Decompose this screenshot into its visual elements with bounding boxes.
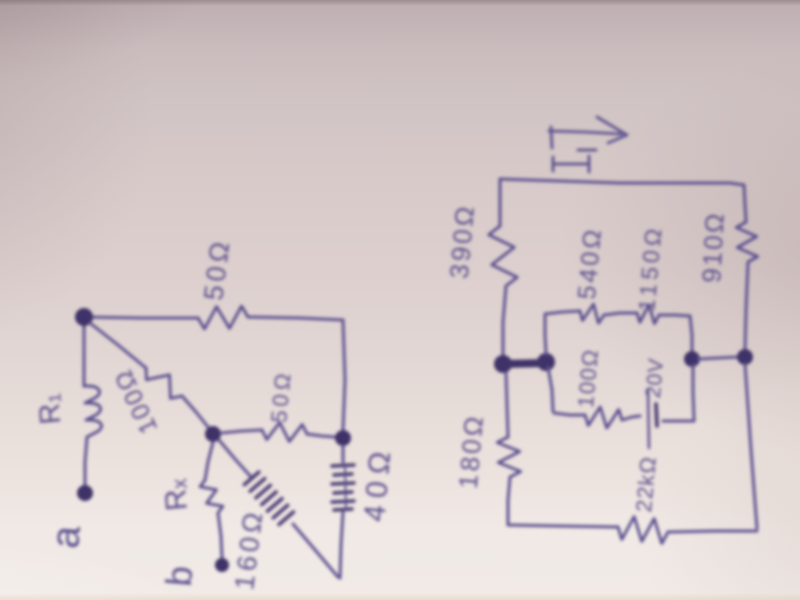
- wire left-top side (node A to corner): [84, 317, 198, 318]
- resistor Rx: [200, 480, 223, 513]
- resistor 100ohm galvanometer arm: [146, 368, 182, 398]
- wire top side to corner: [248, 317, 343, 320]
- terminal dot a: [77, 485, 93, 501]
- arrow current I1 shaft: [549, 131, 621, 134]
- wire R1 to terminal a: [85, 437, 87, 486]
- resistor 22kohm: [618, 517, 668, 544]
- svg-text:540Ω: 540Ω: [573, 225, 607, 300]
- svg-text:910Ω: 910Ω: [696, 211, 730, 284]
- svg-text:Rₓ: Rₓ: [158, 478, 194, 512]
- wire lower box left side: [548, 367, 553, 411]
- svg-text:100Ω: 100Ω: [573, 347, 603, 409]
- battery 20V short plate: [656, 404, 657, 426]
- wire lower box right side: [693, 365, 694, 421]
- wire lower box bottom-left: [554, 413, 585, 415]
- wire corner down to node C: [343, 320, 345, 430]
- label I1 drawn I-beam: [553, 150, 596, 172]
- junction bar JL-JM: [503, 363, 546, 364]
- arrow head: [597, 117, 627, 143]
- wire 390ohm to node JL: [503, 286, 506, 357]
- svg-text:180Ω: 180Ω: [453, 412, 489, 490]
- wire top side right circuit: [500, 179, 744, 185]
- wire 40ohm to bottom corner: [340, 512, 343, 578]
- wire upper box right side: [690, 316, 692, 352]
- wire node A down to R1: [83, 324, 86, 386]
- wire node C down to 40ohm: [342, 446, 345, 462]
- wire KR to JR: [698, 357, 738, 359]
- svg-text:b: b: [158, 564, 201, 588]
- wire diagonal node B down-right: [219, 440, 252, 478]
- wire JL down to 180ohm: [506, 373, 508, 437]
- svg-text:50Ω: 50Ω: [198, 236, 235, 302]
- resistor 180ohm: [497, 437, 520, 477]
- wire between 540 and 1150: [604, 313, 637, 315]
- svg-text:100Ω: 100Ω: [109, 364, 164, 438]
- wire 910ohm to node JR: [745, 262, 748, 350]
- resistor 160ohm striped on diagonal: [244, 472, 293, 524]
- resistor 910ohm: [736, 222, 757, 262]
- wire bottom side right: [668, 531, 757, 532]
- resistor 390ohm: [489, 226, 517, 286]
- wire right side upper: [744, 185, 746, 222]
- svg-text:1150Ω: 1150Ω: [633, 223, 666, 312]
- svg-text:22kΩ: 22kΩ: [631, 455, 661, 513]
- node dot KR: [684, 351, 700, 367]
- node dot JM: [537, 353, 555, 371]
- resistor R1: [84, 386, 102, 437]
- wire upper box top-right: [659, 315, 690, 316]
- wire battery to lower box right side: [663, 420, 694, 423]
- wire upper box top-left: [545, 311, 580, 314]
- battery 20V long plate: [648, 390, 649, 448]
- wire right side lower: [745, 364, 757, 528]
- wire diagonal A to galvanometer resistor: [90, 323, 146, 368]
- svg-text:20V: 20V: [642, 357, 668, 399]
- node dot B: [205, 426, 221, 442]
- wire 50ohm mid to node C: [307, 434, 335, 437]
- wire Rx to terminal b: [218, 513, 222, 558]
- wire diagonal to node B: [182, 396, 208, 427]
- svg-text:R₁: R₁: [33, 392, 68, 426]
- svg-text:390Ω: 390Ω: [444, 202, 480, 280]
- wire 180ohm to bottom corner: [508, 477, 510, 524]
- node dot A: [75, 308, 93, 326]
- wire upper box left side: [545, 316, 546, 354]
- node dot JR: [737, 349, 753, 365]
- wire left side upper: [499, 179, 502, 226]
- resistor 50ohm top-left bridge arm: [198, 306, 248, 329]
- wire 100ohm to battery: [622, 416, 640, 420]
- resistor 40ohm ladder: [332, 465, 354, 510]
- wire 40ohm internal: [345, 464, 346, 509]
- resistor 100ohm: [585, 407, 622, 428]
- wire bottom side left: [508, 525, 618, 527]
- arrow start tick: [551, 127, 552, 148]
- node dot C: [335, 430, 351, 446]
- resistor 50ohm middle arm: [262, 423, 307, 442]
- wire node B down to Rx: [205, 442, 213, 480]
- svg-text:40Ω: 40Ω: [358, 443, 398, 523]
- resistor 1150ohm: [637, 305, 659, 324]
- svg-text:a: a: [43, 523, 89, 550]
- wire diagonal to bottom corner: [293, 524, 338, 577]
- terminal dot b: [215, 558, 229, 572]
- resistor 540ohm: [580, 304, 604, 323]
- svg-text:50Ω: 50Ω: [266, 368, 296, 423]
- wire node B to 50ohm mid: [221, 430, 262, 433]
- svg-text:160Ω: 160Ω: [229, 507, 269, 592]
- node dot JL: [494, 355, 512, 373]
